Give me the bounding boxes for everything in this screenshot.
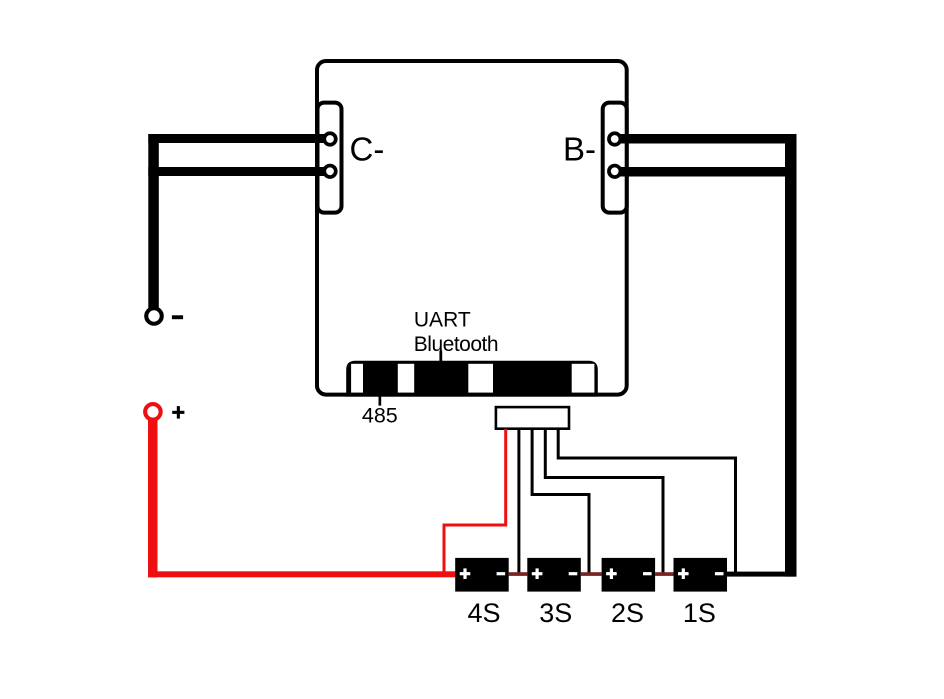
svg-text:C-: C- <box>350 131 385 168</box>
svg-text:Bluetooth: Bluetooth <box>414 333 498 356</box>
svg-text:B-: B- <box>563 131 596 168</box>
svg-text:3S: 3S <box>539 598 572 628</box>
svg-text:1S: 1S <box>683 598 716 628</box>
svg-text:4S: 4S <box>467 598 500 628</box>
svg-text:2S: 2S <box>611 598 644 628</box>
svg-text:UART: UART <box>414 309 471 332</box>
svg-text:485: 485 <box>362 404 398 428</box>
